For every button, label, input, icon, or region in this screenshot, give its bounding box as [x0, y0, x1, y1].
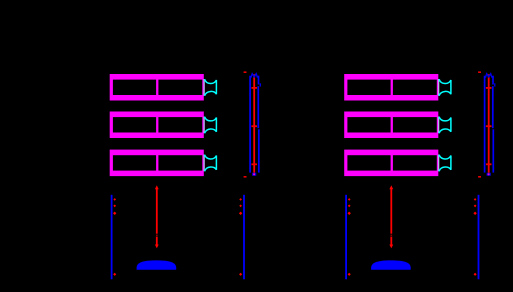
ejection arrow R lower segment — [390, 237, 392, 245]
wave arrow line R (red) — [488, 74, 490, 173]
guide line right L (blue, segmented) — [258, 76, 260, 173]
chamber wall right L (blue) — [243, 195, 245, 279]
marker dot right L y=274.3 — [239, 273, 242, 276]
wave arrow line L (red) — [253, 74, 255, 173]
ejection arrow R upper segment — [390, 188, 392, 234]
horn L2 cyan outline — [205, 117, 217, 134]
dimension tick bottom L — [244, 176, 247, 178]
end cap dot L (magenta) — [253, 173, 255, 175]
marker dot left R y=199.4 — [348, 198, 351, 201]
horn L3 cyan outline — [205, 155, 217, 171]
wave node cross L at y=87.9 — [251, 87, 257, 89]
marker dot right R y=274.3 — [474, 273, 477, 276]
guide line left L (blue) — [249, 76, 251, 173]
horn R1 throat plate (lavender) — [438, 79, 440, 96]
horn R1 cyan outline — [439, 79, 451, 96]
horn R3 cyan outline — [439, 155, 451, 171]
horn L1 throat plate (lavender) — [203, 79, 205, 96]
transducer stack R3 right cell — [393, 155, 437, 170]
end cap dot R (magenta) — [488, 173, 490, 175]
ejection arrow L upper segment — [156, 188, 158, 234]
wave node cross R at y=126.2 — [486, 125, 492, 127]
transducer stack L1 body — [110, 74, 204, 101]
horn R2 throat plate (lavender) — [438, 117, 440, 134]
marker dot right R y=213.3 — [473, 212, 476, 215]
horn L3 throat plate (lavender) — [203, 155, 205, 172]
wave node cross L at y=126.2 — [251, 125, 257, 127]
transducer stack R1 right cell — [393, 80, 437, 95]
horn R2 cyan outline — [439, 117, 451, 134]
marker dot left R y=205.8 — [348, 205, 351, 208]
transducer stack L1 right cell — [158, 80, 202, 95]
transducer stack R1 body — [344, 74, 438, 101]
transducer stack L2 right cell — [158, 117, 202, 132]
marker dot right R y=205.8 — [474, 205, 477, 208]
marker dot right R y=199.4 — [474, 198, 477, 201]
transducer stack L3 right cell — [158, 155, 202, 170]
dimension tick bottom R — [478, 176, 481, 178]
transducer stack L3 body — [110, 150, 204, 177]
chamber wall left L (blue) — [111, 195, 113, 279]
horn L2 throat plate (lavender) — [203, 117, 205, 134]
ejection arrow R break dash — [390, 234, 392, 237]
droplet L (blue) — [137, 260, 177, 269]
ejection arrow R up-head — [389, 185, 393, 189]
wave node cross L at y=164.3 — [251, 163, 257, 165]
node marker M R (blue zigzag) — [485, 74, 492, 78]
ejection arrow L break dash — [156, 234, 158, 237]
droplet R (blue) — [371, 260, 411, 269]
marker dot left R y=213.3 — [348, 212, 351, 215]
horn L1 cyan outline — [205, 79, 217, 96]
marker dot right L y=199.4 — [239, 198, 242, 201]
node marker M L (blue zigzag) — [251, 74, 258, 78]
guide line left R (blue) — [484, 76, 486, 173]
end cap L (blue square) — [252, 173, 256, 176]
transducer stack L1 left cell — [113, 80, 156, 95]
transducer stack R1 left cell — [347, 80, 390, 95]
transducer stack R2 body — [344, 112, 438, 139]
guide line right R (blue, segmented) — [493, 76, 495, 173]
wave node cross R at y=87.9 — [486, 87, 492, 89]
transducer stack L2 body — [110, 112, 204, 139]
transducer stack R3 body — [344, 150, 438, 177]
horn R3 throat plate (lavender) — [438, 155, 440, 172]
marker dot left L y=205.8 — [113, 205, 116, 208]
marker dot right L y=213.3 — [239, 212, 242, 215]
chamber wall right R (blue) — [478, 195, 480, 279]
dimension tick top R — [478, 71, 481, 73]
chamber wall left R (blue) — [345, 195, 347, 279]
transducer stack L2 left cell — [113, 117, 156, 132]
marker dot left L y=274.3 — [113, 273, 116, 276]
transducer stack R2 left cell — [347, 117, 390, 132]
ejection arrow L down-head — [155, 245, 159, 249]
marker dot left R y=274.3 — [348, 273, 351, 276]
dimension tick top L — [244, 71, 247, 73]
end cap R (blue square) — [487, 173, 491, 176]
transducer stack R2 right cell — [393, 117, 437, 132]
wave node cross R at y=164.3 — [486, 163, 492, 165]
marker dot left L y=199.4 — [113, 198, 116, 201]
ejection arrow R down-head — [389, 245, 393, 249]
transducer stack L3 left cell — [113, 155, 156, 170]
ejection arrow L lower segment — [156, 237, 158, 245]
ejection arrow L up-head — [155, 185, 159, 189]
marker dot left L y=213.3 — [113, 212, 116, 215]
marker dot right L y=205.8 — [239, 205, 242, 208]
transducer stack R3 left cell — [347, 155, 390, 170]
